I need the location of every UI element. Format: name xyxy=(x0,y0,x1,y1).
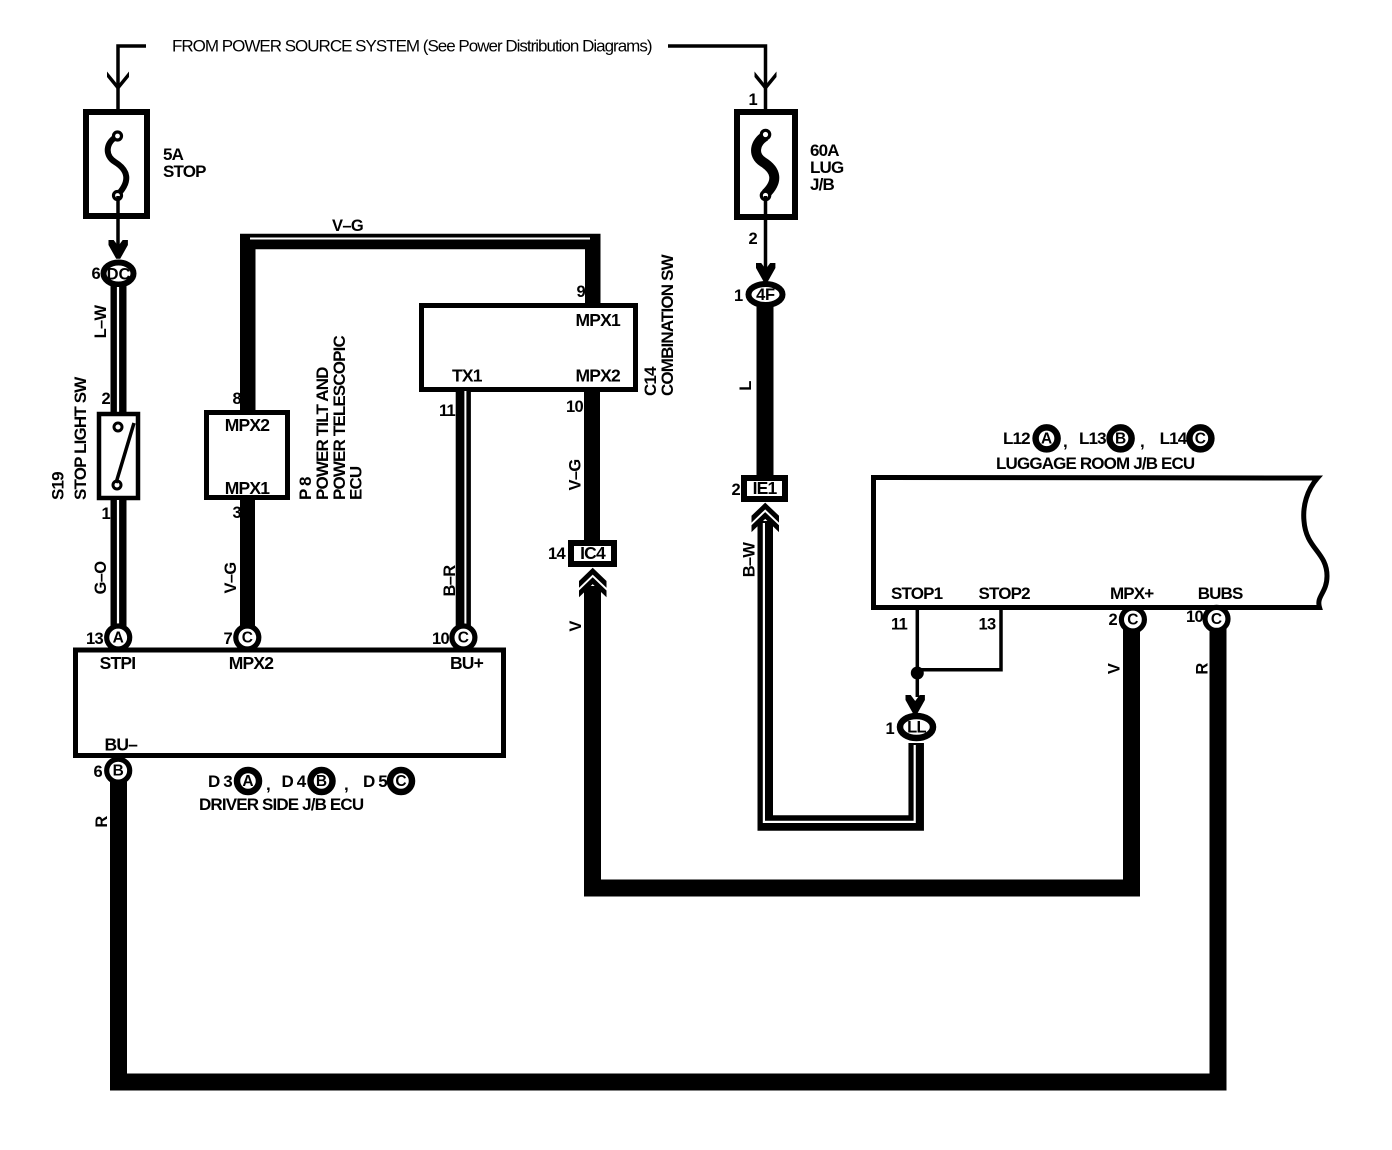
connector ring A (luggage legend) xyxy=(1036,427,1058,449)
arrowhead: down chevron into 60A fuse xyxy=(755,72,777,91)
svg-text:MPX1: MPX1 xyxy=(225,478,271,498)
svg-text:IC4: IC4 xyxy=(580,543,606,563)
connector A (13, STPI) xyxy=(107,626,130,649)
svg-text:S19: S19 xyxy=(49,472,68,500)
box: LUGGAGE ROOM J/B ECU xyxy=(874,478,1328,608)
connector ring B (luggage legend) xyxy=(1110,427,1132,449)
svg-text:C: C xyxy=(395,773,406,790)
svg-text:1: 1 xyxy=(886,720,895,738)
svg-text:B: B xyxy=(316,773,327,790)
svg-text:C: C xyxy=(1195,430,1206,447)
svg-text:1: 1 xyxy=(749,91,758,109)
arrowhead: double chevron up into IC4 xyxy=(579,568,607,588)
box: DRIVER SIDE J/B ECU xyxy=(76,650,504,756)
svg-text:MPX2: MPX2 xyxy=(225,415,271,435)
svg-text:,: , xyxy=(266,775,270,794)
svg-text:COMBINATION SW: COMBINATION SW xyxy=(658,253,677,396)
svg-text:1: 1 xyxy=(734,287,743,305)
svg-text:IE1: IE1 xyxy=(753,478,778,498)
svg-text:STOP2: STOP2 xyxy=(979,584,1031,603)
fuse 5A STOP: bottom terminal circle xyxy=(114,192,122,200)
svg-text:,: , xyxy=(1063,432,1067,451)
svg-text:14: 14 xyxy=(548,545,566,563)
wire R: connector B down, across bottom, up to BUBS C connector xyxy=(119,629,1219,1082)
svg-text:10: 10 xyxy=(432,630,449,648)
svg-text:11: 11 xyxy=(891,616,908,634)
connector C (7, MPX2) xyxy=(236,626,259,649)
wire V-G: P8 pin 3 down to connector C(7) xyxy=(240,498,255,628)
svg-text:BUBS: BUBS xyxy=(1198,584,1243,603)
wire: STOP1 pin 11 down to junction and LL xyxy=(916,610,920,697)
svg-text:DRIVER SIDE J/B ECU: DRIVER SIDE J/B ECU xyxy=(199,795,364,814)
svg-text:V–G: V–G xyxy=(222,563,240,594)
svg-text:2: 2 xyxy=(749,230,758,248)
svg-text:L–W: L–W xyxy=(92,305,110,339)
svg-text:B–W: B–W xyxy=(741,542,759,578)
svg-text:R: R xyxy=(1194,663,1212,675)
svg-text:A: A xyxy=(1041,430,1052,447)
svg-text:L: L xyxy=(737,381,755,391)
fuse 60A: element S-curve (thick) xyxy=(756,136,774,194)
svg-text:8: 8 xyxy=(233,390,242,408)
svg-text:B–R: B–R xyxy=(441,565,459,597)
wire G-O: switch to connector A (striped band) xyxy=(111,498,127,628)
svg-text:1: 1 xyxy=(102,505,111,523)
connector C (2, MPX+) xyxy=(1121,608,1144,631)
svg-text:B: B xyxy=(113,763,124,780)
arrowhead: solid chevron into DC connector xyxy=(109,240,128,259)
wire B-R: TX1 pin 11 to connector C(10) (striped band) xyxy=(456,389,471,628)
switch S19: top contact xyxy=(114,423,122,431)
wire: 5A fuse to DC connector xyxy=(116,196,120,252)
svg-text:2: 2 xyxy=(732,481,741,499)
svg-text:V: V xyxy=(567,621,585,632)
svg-text:L14: L14 xyxy=(1160,429,1188,448)
svg-text:10: 10 xyxy=(566,398,583,416)
svg-text:A: A xyxy=(113,630,124,647)
connector ring C (luggage legend) xyxy=(1189,427,1211,449)
wire L-W: DC to stop light switch (striped band) xyxy=(111,285,127,414)
arrowhead: double chevron up into IE1 xyxy=(752,503,780,523)
fuse 60A LUG J/B: body xyxy=(737,112,795,217)
switch S19: bottom contact xyxy=(113,481,121,489)
connector IC4 xyxy=(571,543,614,564)
svg-text:STOP1: STOP1 xyxy=(891,584,943,603)
svg-text:MPX1: MPX1 xyxy=(576,310,622,330)
svg-text:MPX2: MPX2 xyxy=(229,653,275,673)
arrowhead: solid chevron into LL xyxy=(906,695,925,714)
svg-text:L12: L12 xyxy=(1003,429,1030,448)
svg-text:LUGGAGE ROOM J/B ECU: LUGGAGE ROOM J/B ECU xyxy=(996,454,1195,473)
svg-text:9: 9 xyxy=(577,283,586,301)
connector C (10, BU+) xyxy=(452,626,475,649)
fuse 60A: bottom terminal circle xyxy=(761,191,769,199)
svg-text:STOP LIGHT SW: STOP LIGHT SW xyxy=(71,376,90,500)
svg-text:DC: DC xyxy=(107,266,131,284)
connector C (10, BUBS) xyxy=(1205,607,1228,630)
svg-text:B: B xyxy=(1115,430,1126,447)
fuse 5A STOP: body xyxy=(86,112,147,216)
svg-text:C: C xyxy=(242,630,253,647)
fuse 60A: top terminal circle xyxy=(761,130,769,138)
wire: STOP2 pin 13 down and across to junction xyxy=(917,610,1001,670)
svg-text:13: 13 xyxy=(86,630,103,648)
wire L: 4F down to IE1 xyxy=(757,306,774,478)
connector LL (oval) xyxy=(900,716,933,738)
svg-text:R: R xyxy=(93,816,111,828)
svg-text:FROM POWER SOURCE SYSTEM (See: FROM POWER SOURCE SYSTEM (See Power Dist… xyxy=(172,37,652,56)
svg-text:LL: LL xyxy=(907,719,926,737)
svg-text:STOP: STOP xyxy=(163,162,206,181)
svg-text:6: 6 xyxy=(94,763,103,781)
svg-text:BU+: BU+ xyxy=(450,653,484,673)
wire V-G: MPX2 pin 10 down to IC4 xyxy=(584,389,600,543)
wire: power feed left (top-left corner down to 5A fuse) xyxy=(118,46,146,133)
wire: power feed right (horizontal then down to 60A fuse) xyxy=(668,46,766,134)
svg-text:V: V xyxy=(1106,663,1124,674)
arrowhead: down chevron into 5A fuse xyxy=(107,72,129,91)
svg-text:ECU: ECU xyxy=(347,466,366,500)
wire: 60A fuse to 4F connector xyxy=(764,196,768,270)
svg-text:2: 2 xyxy=(102,390,111,408)
connector B (6, BU-) xyxy=(107,759,130,782)
svg-text:G–O: G–O xyxy=(92,561,110,595)
connector ring B (legend) xyxy=(311,770,333,792)
wire V: IC4 down, across, and up to luggage room MPX+ C connector xyxy=(593,586,1132,888)
svg-text:,: , xyxy=(1140,432,1144,451)
junction dot xyxy=(911,667,924,680)
svg-text:,: , xyxy=(344,775,348,794)
svg-text:C: C xyxy=(1127,612,1138,629)
svg-text:A: A xyxy=(242,773,253,790)
fuse 5A STOP: top terminal circle xyxy=(114,132,122,140)
switch C14 combination SW: body xyxy=(422,306,636,390)
svg-text:V–G: V–G xyxy=(332,217,363,235)
svg-text:D 5: D 5 xyxy=(363,772,387,791)
connector IE1 xyxy=(744,478,785,499)
switch S19 stop light sw: body xyxy=(99,414,138,498)
connector DC (oval) xyxy=(104,263,134,285)
connector ring A (legend) xyxy=(237,770,259,792)
arrowhead: solid chevron into 4F xyxy=(756,263,775,282)
wire B-W: IE1 down, across, up to LL connector (striped band) xyxy=(765,521,916,823)
fuse 5A STOP: element S-curve xyxy=(108,136,127,195)
connector ring C (legend) xyxy=(390,770,412,792)
wire V-G: top run from P8 to combination SW pin 9 (striped horizontal, solid verticals) xyxy=(248,242,593,413)
svg-text:4F: 4F xyxy=(756,286,775,304)
svg-text:10: 10 xyxy=(1186,608,1203,626)
svg-text:C: C xyxy=(458,630,469,647)
svg-text:J/B: J/B xyxy=(810,175,834,194)
connector 4F (oval) xyxy=(749,284,783,305)
svg-text:MPX2: MPX2 xyxy=(576,366,622,386)
svg-text:TX1: TX1 xyxy=(452,366,483,386)
svg-text:6: 6 xyxy=(92,265,101,283)
svg-text:V–G: V–G xyxy=(567,460,585,491)
svg-text:MPX+: MPX+ xyxy=(1110,584,1154,603)
svg-text:7: 7 xyxy=(224,630,233,648)
svg-text:13: 13 xyxy=(979,616,996,634)
ECU P8 power tilt and power telescopic: body xyxy=(207,413,288,498)
svg-text:11: 11 xyxy=(439,402,456,420)
svg-text:D 4: D 4 xyxy=(282,772,307,791)
svg-text:BU–: BU– xyxy=(105,735,139,755)
switch S19: blade xyxy=(116,423,134,483)
svg-text:STPI: STPI xyxy=(100,653,136,673)
svg-text:C: C xyxy=(1211,611,1222,628)
svg-text:2: 2 xyxy=(1109,611,1118,629)
svg-text:D 3: D 3 xyxy=(208,772,232,791)
svg-text:L13: L13 xyxy=(1079,429,1106,448)
